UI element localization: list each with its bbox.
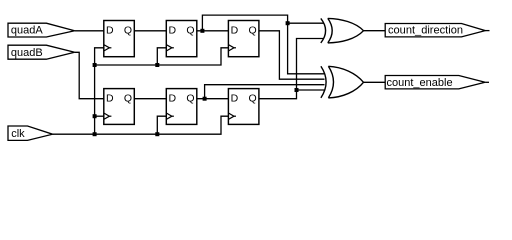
svg-text:D: D: [169, 92, 177, 104]
svg-text:Q: Q: [124, 92, 132, 104]
svg-text:Q: Q: [249, 92, 257, 104]
svg-text:Q: Q: [186, 25, 194, 37]
svg-text:D: D: [106, 25, 114, 37]
svg-text:count_enable: count_enable: [387, 77, 453, 89]
svg-text:D: D: [169, 25, 177, 37]
svg-text:count_direction: count_direction: [388, 25, 463, 37]
svg-text:D: D: [106, 92, 114, 104]
svg-text:D: D: [231, 92, 239, 104]
svg-text:clk: clk: [11, 128, 25, 140]
svg-text:quadB: quadB: [11, 47, 43, 59]
svg-text:Q: Q: [124, 25, 132, 37]
svg-text:Q: Q: [249, 25, 257, 37]
svg-text:D: D: [231, 25, 239, 37]
svg-text:Q: Q: [186, 92, 194, 104]
svg-text:quadA: quadA: [11, 25, 43, 37]
